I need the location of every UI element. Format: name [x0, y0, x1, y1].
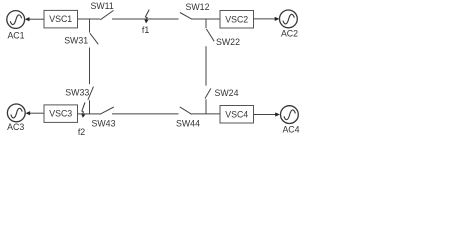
- switch SW43: [100, 107, 179, 114]
- wire SW22 to SW24: [205, 46, 207, 85]
- svg-text:SW31: SW31: [64, 36, 88, 46]
- fault f2: [81, 102, 85, 117]
- arrow VSC3 to AC3: [25, 111, 44, 115]
- svg-text:VSC1: VSC1: [49, 14, 72, 24]
- switch SW31: [90, 33, 98, 44]
- svg-text:SW43: SW43: [92, 119, 116, 129]
- switch SW11: [100, 10, 178, 19]
- switch SW22: [206, 29, 214, 41]
- arrow VSC2 to AC2: [254, 17, 280, 21]
- svg-text:SW11: SW11: [91, 1, 114, 11]
- wire VSC1 to node A: [78, 18, 100, 20]
- svg-text:f1: f1: [142, 25, 149, 35]
- converter VSC3: [44, 105, 78, 123]
- AC source AC1: [7, 11, 25, 29]
- svg-text:SW22: SW22: [216, 37, 240, 47]
- svg-text:SW33: SW33: [65, 88, 89, 98]
- svg-text:AC1: AC1: [7, 31, 24, 41]
- wire SW31 to SW33: [89, 48, 91, 85]
- arrow VSC4 to AC4: [254, 112, 280, 116]
- wire VSC2 node to SW22: [205, 19, 207, 28]
- switch SW33: [88, 87, 94, 100]
- converter VSC4: [220, 106, 254, 124]
- svg-text:f2: f2: [78, 127, 85, 137]
- converter VSC1: [44, 10, 78, 28]
- svg-text:VSC2: VSC2: [225, 14, 248, 24]
- svg-text:AC3: AC3: [7, 122, 24, 132]
- AC source AC3: [7, 104, 25, 122]
- wire VSC3 to node B: [78, 113, 90, 115]
- switch SW12: [180, 13, 220, 20]
- svg-text:SW12: SW12: [186, 2, 210, 12]
- node A vertical wire down: [89, 19, 91, 33]
- wire SW33 to node B: [89, 100, 91, 114]
- svg-text:VSC3: VSC3: [49, 109, 72, 119]
- node B wire on bottom bus: [90, 113, 101, 115]
- converter VSC2: [220, 11, 254, 29]
- svg-text:AC4: AC4: [282, 124, 299, 134]
- fault f1: [144, 10, 149, 24]
- switch SW44: [180, 107, 220, 114]
- svg-text:SW44: SW44: [176, 119, 200, 129]
- svg-text:VSC4: VSC4: [225, 109, 248, 119]
- arrow VSC1 to AC1: [25, 17, 44, 21]
- svg-text:AC2: AC2: [281, 29, 298, 39]
- switch SW24: [205, 88, 211, 98]
- wire SW24 to bottom bus: [205, 99, 207, 114]
- AC source AC2: [280, 10, 298, 28]
- svg-text:SW24: SW24: [215, 88, 239, 98]
- AC source AC4: [281, 106, 299, 124]
